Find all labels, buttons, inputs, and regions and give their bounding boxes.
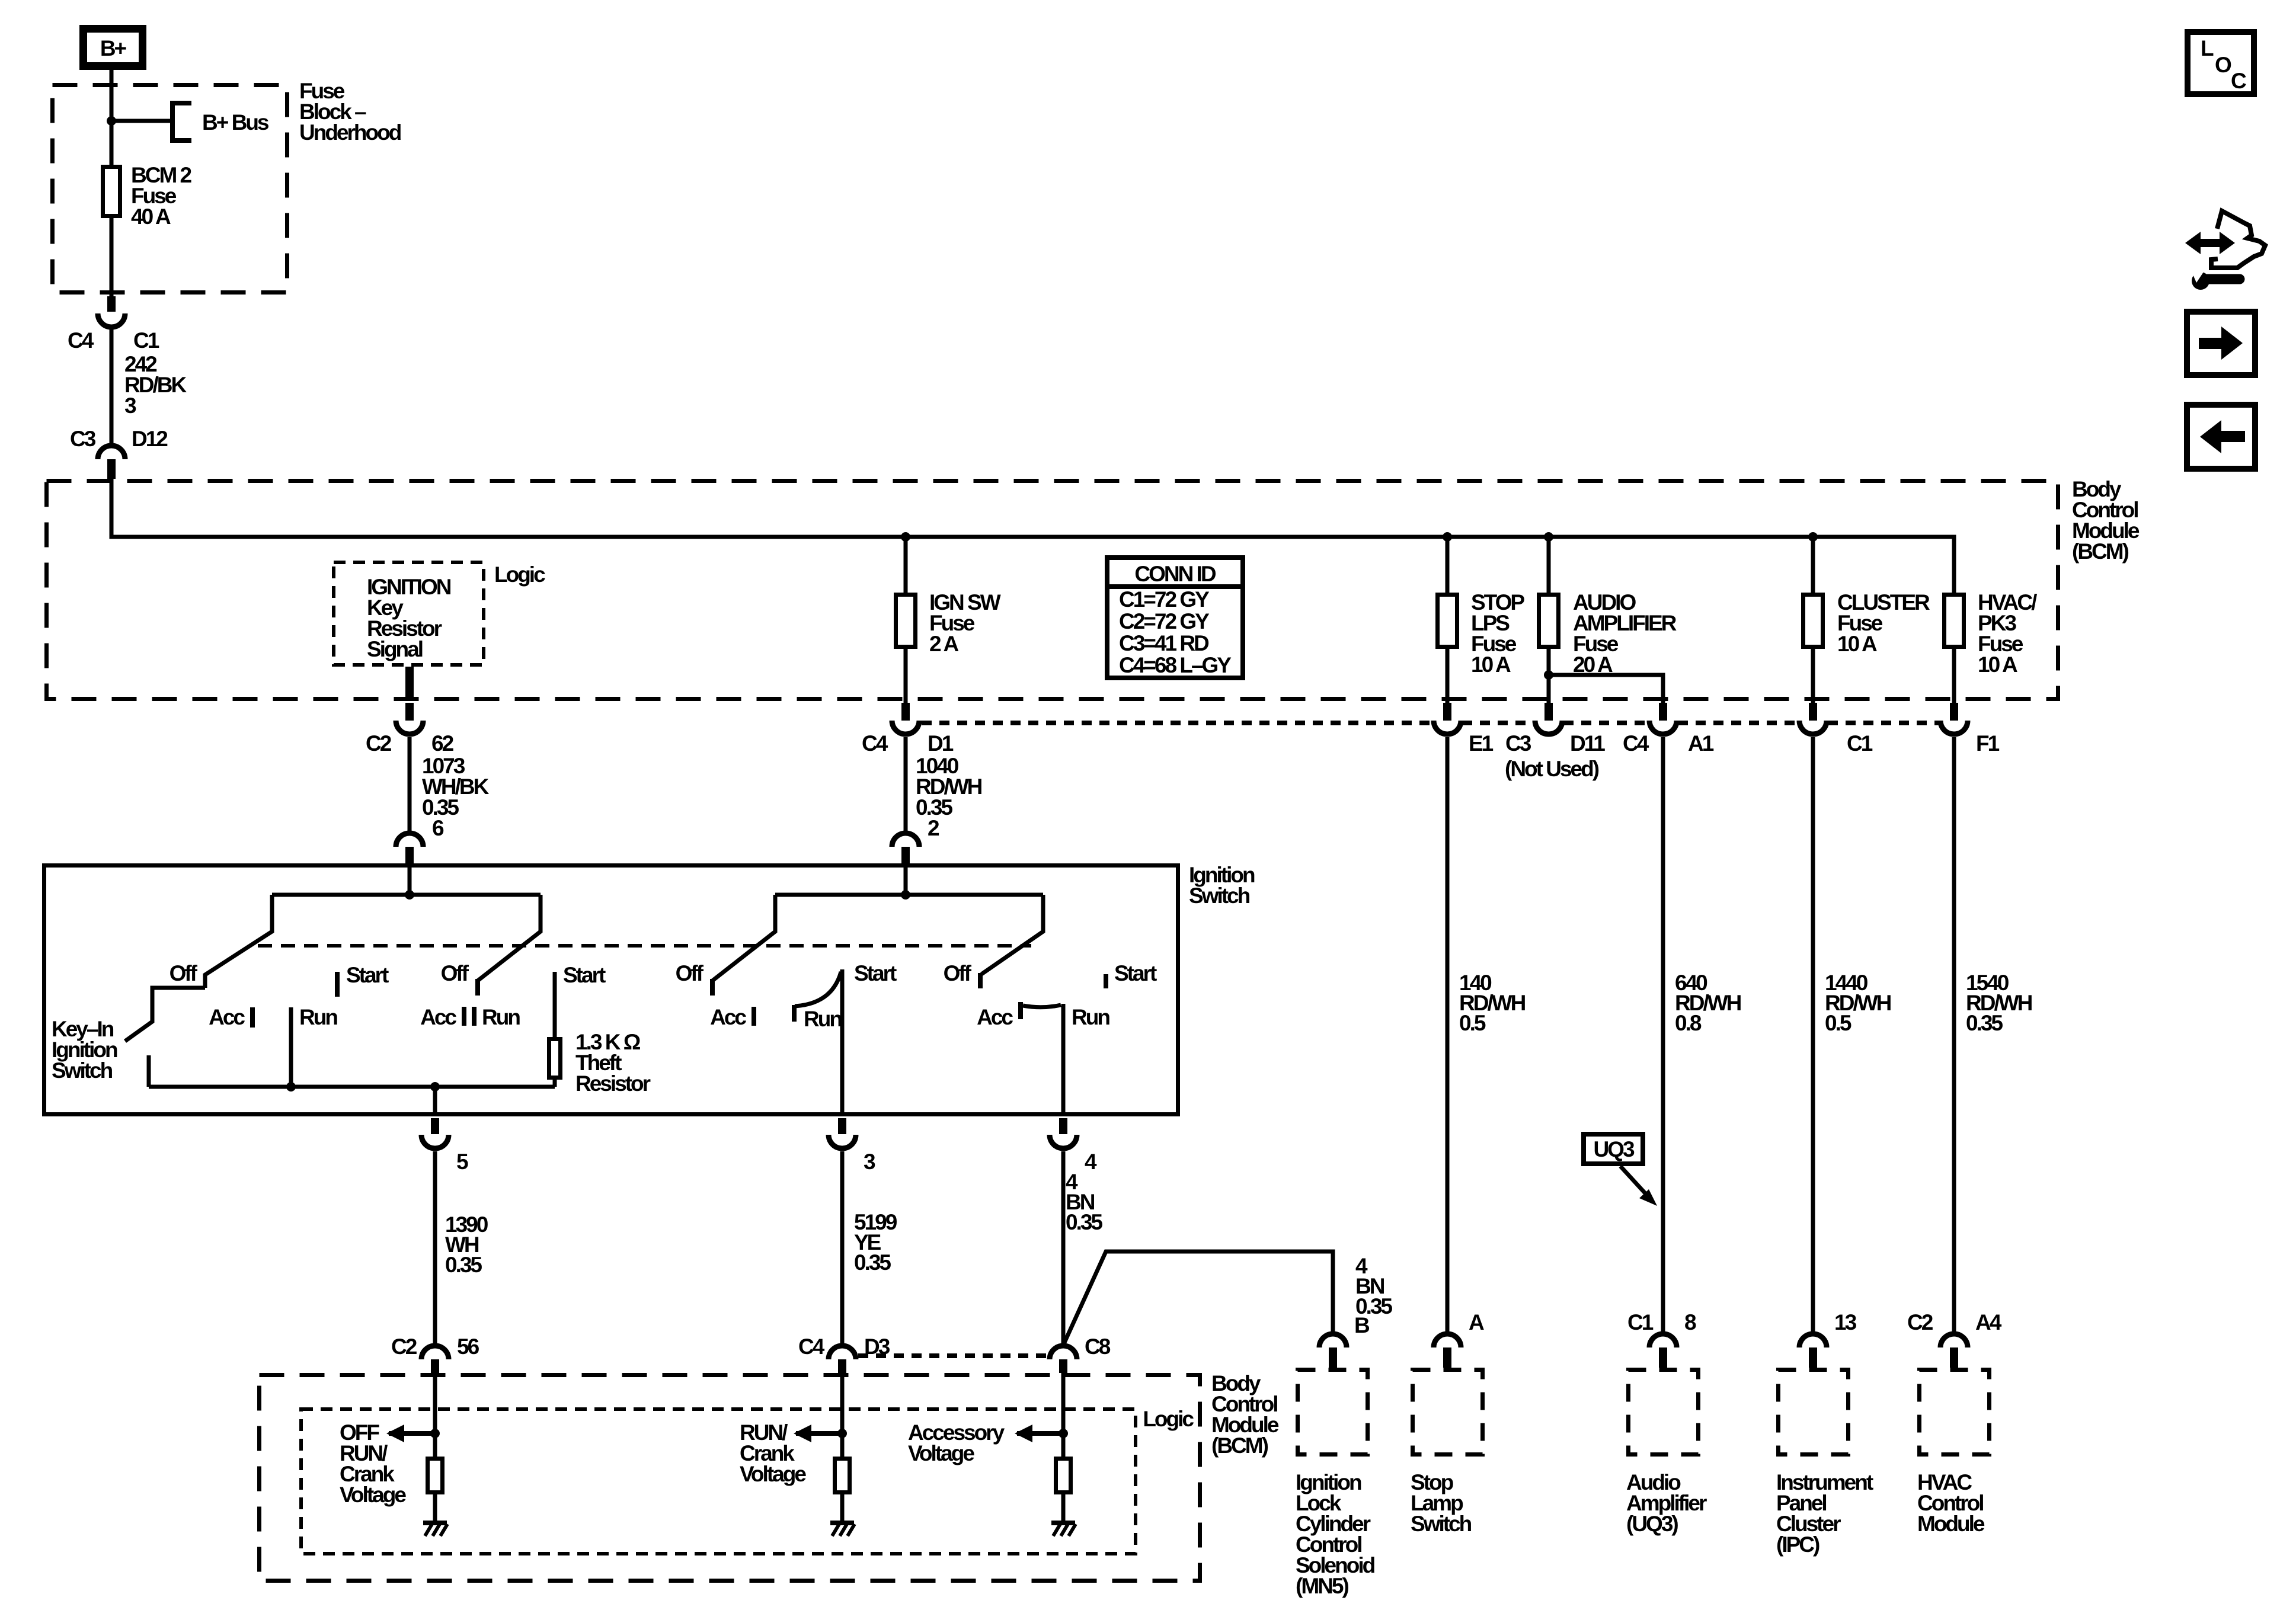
svg-text:UQ3: UQ3 — [1593, 1137, 1635, 1161]
wire fuse to connector C1 — [110, 216, 114, 298]
wire circuit 5199 — [840, 1151, 845, 1346]
wire bus to STOP fuse — [1446, 537, 1450, 593]
svg-text:(IPC): (IPC) — [1776, 1532, 1819, 1557]
svg-text:Switch: Switch — [52, 1058, 113, 1083]
svg-text:O: O — [2215, 53, 2231, 77]
svg-text:10 A: 10 A — [1471, 652, 1511, 677]
svg-text:D12: D12 — [132, 427, 168, 451]
arrow left box — [2187, 405, 2255, 469]
ground 1 — [423, 1521, 447, 1525]
svg-text:C2=72 GY: C2=72 GY — [1119, 609, 1210, 633]
service icon double arrow — [2185, 232, 2235, 254]
wire label 5199 YE 0.35 — [854, 1210, 897, 1275]
wire bus to CLUSTER fuse — [1811, 537, 1815, 593]
svg-text:0.35: 0.35 — [1066, 1210, 1102, 1234]
mechanical linkage dashed line — [258, 944, 1031, 948]
wire label 640 RD/WH 0.8 — [1675, 971, 1741, 1035]
label Fuse Block - Underhood — [299, 79, 401, 145]
svg-text:A: A — [1469, 1310, 1484, 1334]
label IGNITION Key Resistor Signal — [367, 575, 451, 661]
ground 2 — [830, 1521, 854, 1525]
svg-text:Voltage: Voltage — [740, 1462, 806, 1486]
svg-text:Logic: Logic — [1143, 1407, 1194, 1431]
fuse IGN SW 2 A — [896, 595, 916, 647]
svg-text:62: 62 — [431, 731, 454, 756]
contact Acc wafer 1 — [209, 1005, 252, 1029]
node AUDIO fuse tap — [1544, 532, 1553, 542]
svg-text:D11: D11 — [1570, 731, 1605, 756]
contact Acc wafer 3 — [710, 1005, 754, 1029]
svg-text:Switch: Switch — [1411, 1512, 1472, 1536]
svg-text:0.5: 0.5 — [1825, 1011, 1851, 1035]
connector A — [1434, 1310, 1484, 1368]
connector B — [1319, 1313, 1370, 1368]
resistor OFF branch — [428, 1459, 443, 1493]
node output pin 5 junction — [430, 1082, 440, 1092]
arrow OFF RUN/Crank Voltage — [340, 1420, 435, 1507]
svg-text:C3: C3 — [70, 427, 96, 451]
node run contact junction — [286, 1082, 296, 1092]
svg-text:C2: C2 — [391, 1334, 417, 1359]
BCM lower module box — [260, 1375, 1200, 1581]
svg-text:3: 3 — [124, 393, 136, 418]
node RUN branch — [837, 1429, 847, 1438]
svg-text:10 A: 10 A — [1978, 652, 2017, 677]
wire B+ bus tap — [111, 119, 172, 123]
service icon wrench — [2190, 268, 2240, 290]
wire B+ to fuse — [110, 70, 114, 167]
service icon component outline — [2211, 211, 2265, 268]
contact Run wafer 3 — [794, 1005, 842, 1031]
svg-text:C1: C1 — [1847, 731, 1873, 756]
wire label 140 RD/WH 0.5 — [1459, 971, 1526, 1035]
svg-text:0.35: 0.35 — [854, 1250, 891, 1275]
svg-text:Start: Start — [1114, 961, 1157, 985]
connector C4/A1 — [1623, 703, 1714, 756]
connector C2/62 — [366, 703, 454, 756]
B+ Bus connector — [172, 103, 269, 140]
wire IGN SW fuse to C4 connector — [904, 649, 908, 703]
svg-text:5: 5 — [456, 1150, 468, 1174]
wire feed wafers 1-2 — [408, 863, 412, 895]
svg-text:Voltage: Voltage — [908, 1441, 974, 1465]
wire wafer bus 1 — [272, 893, 541, 897]
svg-text:(MN5): (MN5) — [1296, 1574, 1348, 1598]
ignition switch box — [44, 866, 1178, 1115]
resistor accessory branch — [1056, 1459, 1071, 1493]
connector C1/8 — [1627, 1310, 1696, 1368]
logic box lower — [301, 1409, 1136, 1554]
label BCM 2 Fuse 40 A — [131, 163, 192, 229]
connector pin 5 — [421, 1118, 468, 1174]
wire RUN crank branch — [840, 1373, 845, 1457]
svg-text:(BCM): (BCM) — [2072, 539, 2129, 564]
connector C4/C1 — [68, 296, 159, 353]
svg-text:Acc: Acc — [710, 1005, 746, 1029]
label Key-In Ignition Switch — [52, 1017, 117, 1083]
wire BCM internal feed bus — [111, 479, 1954, 593]
svg-text:Acc: Acc — [209, 1005, 245, 1029]
svg-text:Off: Off — [170, 961, 198, 985]
contact Off wafer 4 — [944, 961, 980, 988]
svg-text:6: 6 — [432, 816, 444, 840]
wire label 1440 RD/WH 0.5 — [1825, 971, 1891, 1035]
fuse STOP LPS 10 A — [1438, 595, 1457, 647]
wire circuit 1390 — [433, 1151, 437, 1346]
connector C1 cluster — [1799, 703, 1873, 756]
contact Acc wafer 4 with wiper curve — [977, 1002, 1061, 1029]
svg-text:A1: A1 — [1688, 731, 1714, 756]
wire circuit 1073 — [408, 737, 412, 834]
contact Off wafer 1 — [170, 961, 198, 985]
svg-text:C4: C4 — [68, 328, 94, 353]
svg-text:Underhood: Underhood — [299, 120, 401, 145]
connector pin 2 — [892, 816, 939, 863]
wire circuit 1440 — [1811, 737, 1815, 1334]
svg-text:2 A: 2 A — [929, 632, 958, 656]
node STOP fuse tap — [1443, 532, 1452, 542]
connector C2/56 — [391, 1334, 479, 1373]
wire AUDIO fuse to D11 and A1 — [1547, 649, 1551, 703]
module Audio Amplifier (UQ3) — [1629, 1370, 1699, 1455]
svg-text:A4: A4 — [1975, 1310, 2002, 1334]
svg-text:C4: C4 — [798, 1334, 825, 1359]
contact Start wafer 1 — [337, 963, 389, 997]
wire label 4 BN 0.35 — [1066, 1170, 1102, 1234]
switch blade wafer 4 — [981, 895, 1043, 974]
wire OFF RUN crank branch — [433, 1373, 437, 1457]
wire to ground 1 — [433, 1494, 437, 1523]
wire branch to ignition lock solenoid — [1063, 1251, 1333, 1345]
svg-text:B: B — [1354, 1313, 1370, 1337]
svg-text:13: 13 — [1834, 1310, 1857, 1334]
wire feed wafers 3-4 — [904, 863, 908, 895]
wire circuit 140 — [1446, 737, 1450, 1334]
fuse block underhood box — [53, 85, 287, 293]
label Ignition Switch — [1189, 863, 1255, 908]
svg-text:(UQ3): (UQ3) — [1626, 1512, 1678, 1536]
junction node — [107, 116, 116, 126]
svg-text:Run: Run — [482, 1005, 520, 1029]
label Body Control Module (BCM) lower — [1211, 1371, 1279, 1458]
module Stop Lamp Switch — [1413, 1370, 1483, 1455]
connector 13 — [1799, 1310, 1857, 1368]
svg-text:Acc: Acc — [420, 1005, 456, 1029]
wire label 1390 WH 0.35 — [445, 1212, 488, 1277]
node AUDIO branch — [1544, 670, 1553, 680]
switch blade wafer 1 — [205, 895, 272, 988]
svg-text:D1: D1 — [928, 731, 954, 756]
label STOP LPS Fuse 10 A — [1471, 590, 1524, 677]
connector C4/D3 — [798, 1334, 890, 1373]
svg-text:Resistor: Resistor — [575, 1071, 651, 1096]
svg-text:0.35: 0.35 — [445, 1253, 482, 1277]
fuse CLUSTER 10 A — [1803, 595, 1823, 647]
contact Run wafer 1 — [291, 1005, 337, 1087]
ground 3 — [1051, 1521, 1075, 1525]
wire circuit 1540 — [1952, 737, 1956, 1334]
svg-text:(BCM): (BCM) — [1211, 1433, 1268, 1458]
svg-text:Switch: Switch — [1189, 884, 1250, 908]
CONN ID table — [1105, 558, 1245, 678]
connector C3/D12 — [70, 427, 168, 479]
wire STOP fuse to E1 connector — [1446, 649, 1450, 703]
svg-text:(Not Used): (Not Used) — [1505, 757, 1599, 781]
wire to ground 2 — [840, 1494, 845, 1523]
svg-text:B+ Bus: B+ Bus — [202, 110, 269, 135]
svg-text:Off: Off — [944, 961, 972, 985]
connector pin 4 — [1050, 1118, 1097, 1174]
LOC legend box — [2188, 32, 2254, 94]
svg-text:F1: F1 — [1976, 731, 2000, 756]
svg-text:C3: C3 — [1505, 731, 1531, 756]
svg-text:C4: C4 — [1623, 731, 1649, 756]
svg-text:Off: Off — [441, 961, 469, 985]
label HVAC/PK3 Fuse 10 A — [1978, 590, 2037, 677]
wire label 4 BN 0.35 branch — [1355, 1254, 1392, 1318]
node IGN SW fuse tap — [901, 532, 910, 542]
wire bus to IGN SW fuse — [904, 537, 908, 593]
wire circuit 242 — [110, 327, 114, 446]
connector C2/A4 — [1907, 1310, 2002, 1368]
dotted line C4/D3 to C8 — [858, 1353, 1048, 1358]
node wafer bus 2 — [901, 890, 910, 900]
svg-text:2: 2 — [928, 816, 939, 840]
switch blade wafer 3 — [712, 895, 775, 981]
svg-text:Signal: Signal — [367, 637, 423, 661]
wire bus to AUDIO fuse — [1547, 537, 1551, 593]
svg-text:Run: Run — [804, 1007, 842, 1031]
key-in ignition switch — [125, 988, 205, 1087]
svg-text:C1: C1 — [1627, 1310, 1654, 1334]
contact Start wafer 4 — [1106, 961, 1157, 988]
BCM module box — [47, 481, 2058, 699]
wire logic box to C2 connector — [405, 667, 414, 701]
wire output to pin 5 — [433, 1087, 437, 1116]
wire wafer 1 output bus — [149, 1085, 555, 1089]
node accessory branch — [1059, 1429, 1068, 1438]
svg-text:C3=41 RD: C3=41 RD — [1119, 631, 1209, 655]
contact Off wafer 2 — [441, 961, 478, 996]
node CLUSTER fuse tap — [1808, 532, 1818, 542]
switch blade wafer 2 — [478, 895, 541, 981]
wire CLUSTER fuse to C1 connector — [1811, 649, 1815, 703]
svg-text:C1=72 GY: C1=72 GY — [1119, 587, 1210, 612]
contact Acc wafer 2 — [420, 1005, 464, 1029]
svg-text:C: C — [2231, 69, 2246, 93]
arrow RUN/Crank Voltage — [740, 1420, 842, 1486]
svg-text:Off: Off — [676, 961, 704, 985]
wire circuit 1040 — [904, 737, 908, 834]
connector pin 6 — [396, 816, 444, 863]
connector pin 3 — [829, 1118, 875, 1174]
svg-text:L: L — [2201, 36, 2214, 60]
svg-text:C1: C1 — [133, 328, 159, 353]
arrow right box — [2187, 312, 2255, 375]
svg-text:C4=68 L–GY: C4=68 L–GY — [1119, 653, 1232, 677]
svg-text:Run: Run — [1072, 1005, 1109, 1029]
fuse AUDIO AMPLIFIER 20 A — [1539, 595, 1559, 647]
svg-text:Logic: Logic — [494, 562, 545, 587]
svg-text:10 A: 10 A — [1837, 632, 1877, 656]
svg-text:Run: Run — [299, 1005, 337, 1029]
label IGN SW Fuse 2 A — [929, 590, 1001, 656]
svg-text:B+: B+ — [100, 36, 127, 60]
wire circuit 4 BN — [1061, 1151, 1066, 1346]
label AUDIO AMPLIFIER Fuse 20 A — [1573, 590, 1677, 677]
node wafer bus 1 — [405, 890, 414, 900]
fuse HVAC/PK3 10 A — [1945, 595, 1964, 647]
connector F1 — [1940, 703, 2000, 756]
wire circuit 640 — [1661, 737, 1665, 1334]
wire label 242 RD/BK 3 — [124, 352, 187, 418]
svg-text:56: 56 — [457, 1334, 479, 1359]
svg-text:40 A: 40 A — [131, 204, 171, 229]
wire label 1073 WH/BK 0.35 — [422, 754, 490, 820]
contact Run wafer 4 — [1063, 1004, 1109, 1116]
contact Start wafer 3 with wiper curve — [795, 961, 897, 1116]
wire label 1540 RD/WH 0.35 — [1966, 971, 2032, 1035]
svg-text:0.8: 0.8 — [1675, 1011, 1702, 1035]
contact Start wafer 2 — [555, 963, 606, 1037]
resistor RUN branch — [835, 1459, 850, 1493]
svg-text:Start: Start — [346, 963, 389, 987]
wire HVAC fuse to F1 connector — [1952, 649, 1956, 703]
label Body Control Module (BCM) — [2072, 477, 2140, 564]
wire wafer bus 2 — [775, 893, 1043, 897]
power symbol B+ — [84, 29, 143, 66]
module Instrument Panel Cluster (IPC) — [1779, 1370, 1849, 1455]
svg-text:0.35: 0.35 — [1966, 1011, 2003, 1035]
wire accessory branch — [1061, 1373, 1066, 1457]
module Ignition Lock Cylinder Control Solenoid (MN5) — [1298, 1370, 1368, 1455]
svg-text:E1: E1 — [1469, 731, 1494, 756]
svg-text:Start: Start — [854, 961, 897, 985]
svg-text:Voltage: Voltage — [340, 1483, 406, 1507]
BCM internal dotted bus — [922, 721, 1939, 725]
theft resistor 1.3 K — [549, 1039, 561, 1087]
connector C4/D1 — [862, 703, 954, 756]
svg-text:Module: Module — [1917, 1512, 1985, 1536]
connector E1 — [1434, 703, 1494, 756]
wire label 1040 RD/WH 0.35 — [916, 754, 982, 820]
fuse BCM 2 40 A — [103, 167, 120, 216]
node OFF branch — [430, 1429, 440, 1438]
module HVAC Control Module — [1920, 1370, 1990, 1455]
arrow Accessory Voltage — [908, 1420, 1063, 1465]
svg-text:C2: C2 — [1907, 1310, 1933, 1334]
label CLUSTER Fuse 10 A — [1837, 590, 1930, 656]
IGNITION Key Resistor Signal logic box — [334, 562, 484, 665]
svg-text:Start: Start — [563, 963, 606, 987]
svg-text:C8: C8 — [1085, 1334, 1111, 1359]
svg-text:C4: C4 — [862, 731, 888, 756]
svg-text:C2: C2 — [366, 731, 392, 756]
svg-text:0.5: 0.5 — [1459, 1011, 1486, 1035]
connector C3/D11 not used — [1505, 703, 1605, 781]
label 1.3 K ohm Theft Resistor — [575, 1030, 651, 1096]
contact Run wafer 2 — [474, 1005, 520, 1029]
svg-text:CONN ID: CONN ID — [1134, 562, 1216, 586]
contact Off wafer 3 — [676, 961, 712, 996]
UQ3 callout — [1584, 1134, 1657, 1206]
svg-text:Acc: Acc — [977, 1005, 1013, 1029]
svg-text:8: 8 — [1684, 1310, 1696, 1334]
connector C8 — [1050, 1334, 1111, 1373]
wire to ground 3 — [1061, 1494, 1066, 1523]
svg-text:3: 3 — [864, 1150, 875, 1174]
